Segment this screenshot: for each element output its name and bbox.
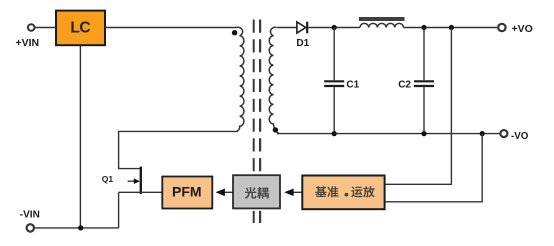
svg-text:D1: D1: [296, 38, 309, 49]
arrow optocoupler to PFM: [224, 191, 233, 193]
inductor L1 winding: [360, 23, 404, 27]
wire primary bottom to Q1 drain: [119, 131, 238, 168]
wire D1 to inductor: [308, 27, 360, 29]
terminal +VIN: [28, 24, 35, 31]
transformer core line 1: [253, 20, 255, 175]
junction +VO sense: [449, 25, 454, 30]
wire -VIN rail: [34, 227, 119, 229]
phase dot secondary: [273, 127, 278, 132]
block optocoupler: [233, 175, 280, 208]
diode D1: [297, 22, 306, 33]
junction D1/C1: [332, 25, 337, 30]
junction L1/C2: [421, 25, 426, 30]
block LC filter: [56, 11, 105, 46]
wire LC to transformer primary: [105, 27, 237, 29]
transformer T1 primary winding: [236, 27, 244, 131]
svg-text:-VIN: -VIN: [20, 209, 40, 220]
svg-text:Q1: Q1: [102, 174, 114, 184]
isolation dash below optocoupler 2: [259, 211, 261, 223]
block reference/op-amp: [302, 176, 384, 210]
svg-text:-VO: -VO: [511, 131, 529, 142]
transistor Q1 channel: [140, 167, 142, 194]
transformer T1 secondary winding: [269, 27, 279, 134]
svg-text:C1: C1: [346, 80, 359, 91]
svg-text:+VO: +VO: [512, 23, 533, 35]
terminal -VO: [500, 130, 507, 137]
arrow reference to optocoupler: [294, 191, 303, 193]
wire inductor to +VO: [404, 27, 499, 29]
transistor Q1 gate arrow: [128, 180, 135, 182]
transformer core line 2: [259, 20, 261, 175]
isolation dash below optocoupler 1: [253, 211, 255, 223]
wire LC bottom to -VIN rail: [79, 45, 81, 228]
label optocoupler 光耦: [245, 187, 257, 199]
block PFM controller: [162, 177, 212, 209]
wire Q1 source to PFM: [119, 191, 163, 193]
capacitor C1: [333, 28, 335, 81]
svg-text:+VIN: +VIN: [15, 37, 39, 49]
label 基准,运放: [315, 186, 326, 197]
wire +VO sense to reference: [385, 28, 451, 185]
junction C2 bottom: [421, 131, 426, 136]
terminal +VO: [498, 24, 505, 31]
svg-text:LC: LC: [70, 19, 90, 36]
phase dot primary: [232, 30, 237, 35]
wire -VO sense to reference: [385, 134, 482, 202]
wire secondary bottom rail: [277, 133, 500, 135]
junction -VO sense: [480, 131, 485, 136]
wire +VIN to LC: [35, 27, 57, 29]
junction C1 bottom: [332, 131, 337, 136]
terminal -VIN: [27, 224, 34, 231]
wire Q1 source to -VIN rail: [118, 192, 120, 228]
svg-text:PFM: PFM: [172, 183, 202, 199]
svg-text:C2: C2: [398, 80, 411, 91]
junction LC/-VIN rail: [78, 225, 83, 230]
wire secondary to D1: [277, 27, 297, 29]
capacitor C2: [423, 28, 425, 81]
inductor L1 core bar: [359, 17, 405, 21]
